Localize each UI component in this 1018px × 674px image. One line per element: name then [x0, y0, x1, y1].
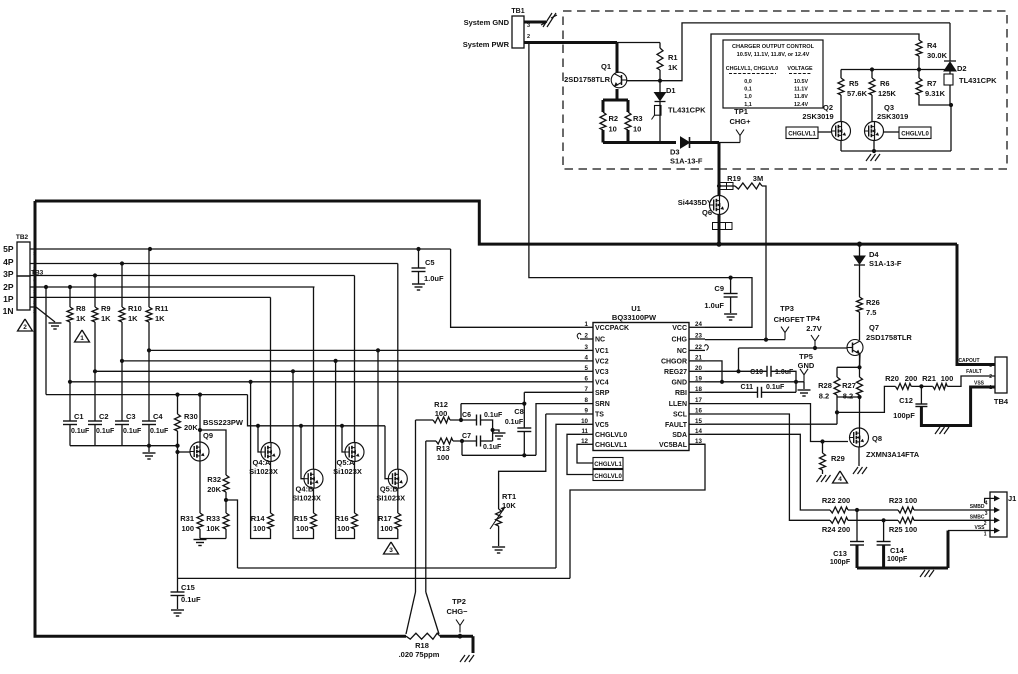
wire R4 feed	[711, 34, 919, 143]
wire Q5:A drain	[354, 276, 356, 443]
svg-text:VC3: VC3	[595, 369, 609, 376]
svg-text:1: 1	[80, 335, 84, 342]
svg-text:VOLTAGE: VOLTAGE	[787, 66, 813, 72]
resistor R31	[197, 513, 203, 529]
svg-text:CHG: CHG	[671, 337, 687, 344]
svg-text:1K: 1K	[155, 314, 165, 323]
svg-text:2P: 2P	[3, 282, 14, 292]
svg-text:VSS: VSS	[974, 381, 985, 387]
resistor R7	[918, 70, 920, 79]
wire 1N to ground	[30, 306, 36, 308]
pin 21 CHGOR	[689, 360, 705, 362]
svg-text:System GND: System GND	[464, 18, 510, 27]
pin 3 VC1	[580, 349, 593, 351]
wire Q9 source to R31	[199, 461, 201, 513]
wire R15 return	[293, 371, 314, 538]
pin 24 VCC	[689, 326, 705, 328]
resistor R12	[416, 419, 434, 421]
wire pack+ rail to TB4 CAPOUT	[957, 244, 995, 364]
wire net VC1	[149, 349, 580, 351]
svg-text:R16: R16	[335, 514, 349, 523]
svg-text:C9: C9	[714, 284, 724, 293]
svg-text:0,0: 0,0	[744, 79, 752, 85]
svg-text:1.0uF: 1.0uF	[704, 301, 724, 310]
svg-text:R23 100: R23 100	[889, 496, 917, 505]
pin 7 SRP	[580, 391, 593, 393]
svg-text:10: 10	[609, 125, 617, 134]
svg-text:0.1uF: 0.1uF	[483, 444, 502, 451]
svg-text:0.1uF: 0.1uF	[71, 428, 90, 435]
svg-text:.020 75ppm: .020 75ppm	[399, 650, 440, 659]
svg-text:BSS223PW: BSS223PW	[203, 418, 244, 427]
wire CHG+ down to Q6	[718, 143, 721, 197]
capacitor C13	[856, 510, 858, 542]
resistor R4	[916, 40, 922, 56]
svg-text:R10: R10	[128, 304, 142, 313]
svg-text:RT1: RT1	[502, 492, 516, 501]
pin 4 VC2	[580, 360, 593, 362]
svg-text:10.5V: 10.5V	[794, 79, 808, 85]
svg-text:R15: R15	[294, 514, 308, 523]
pin 9 TS	[580, 413, 593, 415]
resistor R33	[223, 513, 229, 529]
svg-text:C12: C12	[899, 396, 913, 405]
resistor R20	[895, 383, 911, 389]
svg-text:SDA: SDA	[672, 432, 687, 439]
diode D2 TL431CPK	[949, 23, 951, 61]
pin 14 SDA	[689, 433, 705, 435]
svg-text:TB1: TB1	[511, 8, 524, 15]
svg-text:NC: NC	[677, 348, 687, 355]
wire C12 ground loop bold	[921, 387, 995, 426]
svg-text:R19: R19	[727, 174, 741, 183]
svg-text:Si1023X: Si1023X	[249, 467, 278, 476]
wire R32 R33 junction	[225, 492, 227, 513]
pin 5 VC3	[580, 370, 593, 372]
svg-text:125K: 125K	[878, 89, 897, 98]
wire Q5:B source	[397, 488, 399, 513]
J1 pin3 SMBD arrow	[984, 509, 996, 511]
svg-text:CHGLVL0: CHGLVL0	[901, 132, 929, 138]
capacitor C3	[115, 420, 129, 422]
wire pack- bold rail left and bottom	[35, 201, 406, 636]
svg-text:R27: R27	[842, 381, 856, 390]
ground C9	[724, 313, 737, 315]
svg-text:SRP: SRP	[595, 390, 610, 397]
wire R2 R3 bottom to CHG+ rail	[602, 130, 605, 143]
svg-text:1K: 1K	[76, 314, 86, 323]
pin 20 REG27	[689, 370, 705, 372]
wire REG27 row	[705, 370, 767, 372]
wire SMB ground rail	[857, 567, 948, 570]
svg-text:19: 19	[695, 375, 702, 382]
wire RBI row	[705, 391, 758, 393]
svg-text:VC1: VC1	[595, 348, 609, 355]
resistor R24	[830, 517, 848, 523]
svg-text:0.1uF: 0.1uF	[96, 428, 115, 435]
svg-text:10K: 10K	[502, 501, 516, 510]
svg-text:1K: 1K	[668, 63, 678, 72]
J1 pin4 stub	[984, 498, 986, 503]
ground Q8	[853, 467, 858, 474]
wire balance gate bus	[248, 395, 386, 426]
capacitor C5	[418, 249, 420, 268]
diode D4	[854, 256, 865, 264]
svg-text:RBI: RBI	[675, 390, 687, 397]
svg-text:TP5: TP5	[799, 352, 813, 361]
ground C5	[412, 283, 425, 285]
resistor R18 shunt	[406, 633, 440, 639]
svg-text:FAULT: FAULT	[966, 369, 982, 375]
wire C10 right	[771, 371, 796, 392]
pin 16 SCL	[689, 413, 705, 415]
svg-text:R31: R31	[180, 514, 194, 523]
ground C6 C7	[493, 430, 499, 432]
pin 10 VC5	[580, 423, 593, 425]
svg-text:1P: 1P	[3, 294, 14, 304]
resistor R9	[94, 276, 96, 308]
wire CHGLVL1 pin to label	[577, 444, 593, 463]
pin 17 LLEN	[689, 403, 705, 405]
wire net 5P row	[30, 248, 451, 250]
svg-text:12.4V: 12.4V	[794, 102, 808, 108]
capacitor C12	[920, 386, 922, 404]
wire R2 R3 top rail	[603, 99, 628, 102]
svg-text:1: 1	[984, 532, 987, 538]
svg-text:SMBC: SMBC	[970, 514, 985, 520]
svg-text:CHARGER OUTPUT CONTROL: CHARGER OUTPUT CONTROL	[732, 44, 815, 50]
transistor Q4:A Si1023X	[261, 443, 280, 462]
resistor R21	[933, 383, 948, 389]
wire VC5 divider tap	[226, 500, 238, 568]
svg-text:Q4:B: Q4:B	[296, 485, 315, 494]
pin 22 NC	[689, 349, 705, 351]
capacitor C10	[766, 366, 768, 377]
svg-text:R30: R30	[184, 412, 198, 421]
wire R30 bottom column to C15 bus	[177, 431, 179, 578]
net label CHGLVL0	[899, 127, 931, 139]
svg-text:REG27: REG27	[664, 369, 687, 376]
svg-text:R9: R9	[101, 304, 111, 313]
svg-text:R26: R26	[866, 298, 880, 307]
capacitor C14	[883, 520, 885, 541]
terminal block TB1	[512, 16, 524, 48]
wire CHGOR tie	[705, 361, 722, 382]
wire SRP to kelvin	[524, 391, 580, 393]
wire R7 D2 bottom	[919, 95, 951, 105]
resistor R28	[836, 367, 838, 377]
svg-text:CHGLVL0: CHGLVL0	[594, 474, 622, 480]
resistor R32	[223, 475, 229, 492]
svg-text:CHGLVL1: CHGLVL1	[788, 132, 816, 138]
svg-text:R24 200: R24 200	[822, 525, 850, 534]
svg-text:C8: C8	[514, 407, 524, 416]
wire SRN kelvin column	[425, 441, 427, 592]
svg-text:NC: NC	[595, 337, 605, 344]
transistor Q5:A Si1023X	[345, 443, 364, 462]
pin 15 FAULT	[689, 423, 705, 425]
ground TP5	[803, 382, 805, 389]
svg-text:VC2: VC2	[595, 359, 609, 366]
svg-text:1.0uF: 1.0uF	[424, 274, 444, 283]
wire SMBC row	[848, 519, 898, 521]
capacitor C1	[63, 420, 77, 422]
wire R11 bottom column	[148, 322, 150, 421]
wire pack- rail after shunt	[440, 635, 473, 638]
svg-text:CHGLVL1: CHGLVL1	[594, 462, 622, 468]
thermistor RT1	[499, 414, 546, 509]
svg-text:R25 100: R25 100	[889, 525, 917, 534]
svg-text:16: 16	[695, 408, 702, 415]
svg-text:20K: 20K	[184, 423, 198, 432]
triangle flag 1	[75, 330, 90, 342]
wire Q8 drain	[859, 397, 861, 428]
wire D4 to R26	[859, 265, 861, 297]
wire Q5:A gate	[342, 426, 345, 452]
wire Q4:A source	[270, 462, 272, 514]
wire gate drive row	[46, 394, 248, 396]
svg-text:R20: R20	[885, 374, 899, 383]
resistor R11	[148, 249, 150, 307]
svg-text:10.5V, 11.1V, 11.8V, or 12.4V: 10.5V, 11.1V, 11.8V, or 12.4V	[737, 52, 810, 58]
svg-text:100: 100	[296, 524, 309, 533]
svg-text:100: 100	[380, 524, 393, 533]
svg-text:CHG+: CHG+	[729, 117, 751, 126]
svg-text:R32: R32	[207, 475, 221, 484]
svg-text:ZXMN3A14FTA: ZXMN3A14FTA	[866, 450, 920, 459]
svg-text:Q6: Q6	[702, 208, 712, 217]
wire R13 to C7	[453, 440, 477, 442]
wire Q6 source to pack rail	[718, 215, 721, 245]
wire CHGLVL0 pin to label	[567, 434, 593, 474]
resistor R19	[735, 183, 762, 189]
svg-text:Si4435DY: Si4435DY	[678, 198, 712, 207]
svg-text:6: 6	[585, 375, 589, 382]
svg-text:4P: 4P	[3, 257, 14, 267]
svg-text:2: 2	[33, 299, 36, 305]
wire net VC5BAL bus	[178, 577, 571, 579]
svg-text:2: 2	[23, 324, 27, 331]
ground C bus	[148, 446, 150, 452]
wire R19 to CHG pin	[762, 186, 766, 340]
svg-text:8.2: 8.2	[819, 392, 829, 401]
svg-text:Q7: Q7	[869, 323, 879, 332]
diode D3	[681, 137, 690, 148]
wire SCL	[705, 414, 830, 520]
svg-text:100pF: 100pF	[893, 411, 915, 420]
svg-text:C5: C5	[425, 258, 435, 267]
svg-text:Q2: Q2	[823, 103, 833, 112]
wire R10 bottom column	[121, 322, 123, 421]
svg-text:R8: R8	[76, 304, 86, 313]
pin 18 RBI	[689, 391, 705, 393]
svg-text:R2: R2	[609, 114, 619, 123]
ground R31 R33	[194, 539, 207, 541]
svg-text:57.6K: 57.6K	[847, 89, 868, 98]
svg-text:0,1: 0,1	[744, 87, 752, 93]
svg-text:7.5: 7.5	[866, 308, 876, 317]
svg-text:R22 200: R22 200	[822, 496, 850, 505]
svg-text:3M: 3M	[753, 174, 763, 183]
wire net 3P row	[30, 275, 355, 277]
svg-text:21: 21	[695, 354, 702, 361]
svg-text:3: 3	[989, 363, 992, 369]
svg-text:10: 10	[581, 418, 588, 425]
wire GND row	[705, 381, 804, 383]
resistor R8	[69, 287, 71, 307]
svg-text:Q5:A: Q5:A	[337, 458, 356, 467]
resistor R16	[352, 513, 358, 529]
transistor Q5:B SI1023X	[388, 469, 407, 488]
svg-text:100: 100	[181, 524, 194, 533]
svg-text:22: 22	[695, 344, 702, 351]
wire R14 return	[251, 382, 271, 539]
svg-text:1: 1	[989, 385, 992, 391]
wire net 2P row	[30, 286, 315, 288]
svg-text:Q9: Q9	[203, 431, 213, 440]
svg-text:C1: C1	[74, 412, 84, 421]
capacitor C2	[88, 420, 102, 422]
svg-text:3: 3	[527, 23, 530, 29]
svg-text:12: 12	[581, 438, 588, 445]
svg-text:C7: C7	[462, 433, 471, 440]
wire SRP rail	[461, 403, 524, 405]
node line R4 R5 R6 R7 D2	[841, 69, 950, 71]
svg-text:U1: U1	[631, 304, 641, 313]
wire Q4:A gate	[258, 426, 261, 452]
svg-text:Q5:B: Q5:B	[380, 485, 399, 494]
wire CHG row	[705, 339, 785, 341]
wire C1-C4 ground bus	[70, 445, 178, 447]
ground 1N	[49, 322, 62, 324]
svg-text:8: 8	[585, 397, 589, 404]
svg-text:3: 3	[389, 547, 393, 554]
svg-text:1: 1	[33, 289, 36, 295]
wire Q2 Q3 sources to ground	[840, 141, 842, 152]
svg-text:7: 7	[585, 386, 589, 393]
wire R27 R28 bottom tie	[836, 395, 838, 397]
svg-text:R7: R7	[927, 79, 937, 88]
wire Q5:B drain	[397, 264, 399, 470]
svg-text:SMBD: SMBD	[970, 504, 985, 510]
svg-text:2SD1758TLR: 2SD1758TLR	[564, 75, 610, 84]
J1 pin2 SMBC arrow	[984, 519, 996, 521]
wire R9 bottom column	[94, 322, 96, 421]
svg-text:Q4:A: Q4:A	[253, 458, 272, 467]
transistor Q4:B SI1023X	[304, 469, 323, 488]
wire R21 to TB4 FAULT	[947, 376, 995, 386]
svg-text:2: 2	[527, 34, 530, 40]
svg-text:SCL: SCL	[673, 412, 688, 419]
svg-text:2.7V: 2.7V	[806, 324, 821, 333]
svg-text:18: 18	[695, 386, 702, 393]
svg-text:13: 13	[695, 438, 702, 445]
wire TS	[546, 413, 580, 415]
wire System PWR to VCC	[529, 43, 752, 328]
wire 5P to VCCPACK pin1	[451, 249, 580, 327]
svg-text:C6: C6	[462, 412, 471, 419]
wire Q4:B gate	[301, 426, 304, 479]
svg-text:C10: C10	[750, 369, 763, 376]
triangle flag 2	[18, 319, 33, 331]
wire R20 R21 junction	[911, 385, 933, 387]
svg-text:R29: R29	[831, 454, 845, 463]
svg-text:CHGLVL1: CHGLVL1	[595, 442, 627, 449]
ground RT1	[492, 546, 505, 548]
svg-text:0.1uF: 0.1uF	[123, 428, 142, 435]
svg-text:CHGOR: CHGOR	[661, 359, 687, 366]
triangle flag 3	[384, 542, 399, 554]
svg-text:S1A-13-F: S1A-13-F	[869, 259, 902, 268]
resistor R27	[859, 354, 861, 377]
svg-text:5P: 5P	[3, 244, 14, 254]
svg-text:SI1023X: SI1023X	[292, 494, 321, 503]
wire Q4:B drain	[313, 287, 315, 469]
net label CHGLVL1 at IC	[593, 458, 623, 469]
J1 pin1 VSS arrow	[984, 530, 996, 532]
svg-text:2SK3019: 2SK3019	[877, 112, 908, 121]
transistor Q6 Si4435DY	[710, 196, 729, 215]
svg-text:Q1: Q1	[601, 62, 611, 71]
terminal block TB4	[995, 357, 1007, 393]
wire net 1P row	[30, 296, 271, 298]
svg-text:8.2: 8.2	[843, 392, 853, 401]
svg-text:0.1uF: 0.1uF	[181, 595, 201, 604]
wire D4 tap	[857, 242, 862, 247]
svg-text:C3: C3	[126, 412, 136, 421]
charger output control table	[723, 40, 823, 108]
svg-text:11.8V: 11.8V	[794, 94, 808, 100]
dashed enclosure charger section	[563, 11, 1007, 169]
svg-text:3: 3	[33, 278, 36, 284]
no-connect hash	[541, 22, 547, 25]
source pads Q6	[713, 223, 720, 230]
svg-text:R21: R21	[922, 374, 936, 383]
wire FAULT row	[705, 423, 837, 425]
resistor R23	[898, 507, 914, 513]
svg-text:D2: D2	[957, 64, 967, 73]
wire R8 bottom column	[69, 322, 71, 421]
wire VC5BAL riser	[570, 444, 705, 578]
svg-text:100: 100	[435, 409, 448, 418]
svg-text:C13: C13	[833, 549, 847, 558]
svg-text:100pF: 100pF	[887, 556, 908, 563]
svg-text:17: 17	[695, 397, 702, 404]
svg-text:C4: C4	[153, 412, 163, 421]
resistor R15	[311, 513, 317, 529]
transistor Q8 ZXMN3A14FTA	[850, 428, 869, 447]
wire SDA	[705, 434, 830, 510]
pin 8 SRN	[580, 403, 593, 405]
wire SRP kelvin column	[415, 420, 417, 592]
svg-text:1N: 1N	[3, 306, 14, 316]
svg-text:D1: D1	[666, 86, 676, 95]
wire R17 return	[378, 350, 398, 538]
svg-text:R12: R12	[434, 400, 448, 409]
wire FAULT jog to R20	[837, 386, 895, 412]
svg-text:2: 2	[33, 266, 36, 272]
capacitor C9	[729, 276, 733, 280]
shunt regulator TL431 symbol at D1	[659, 102, 661, 143]
svg-text:30.0K: 30.0K	[927, 51, 948, 60]
svg-text:20K: 20K	[207, 485, 221, 494]
wire R1 top	[617, 42, 660, 44]
wire Q8 source	[858, 447, 860, 466]
svg-text:TP2: TP2	[452, 597, 466, 606]
svg-text:R13: R13	[436, 444, 450, 453]
svg-text:100: 100	[253, 524, 266, 533]
svg-text:VSS: VSS	[974, 525, 985, 531]
